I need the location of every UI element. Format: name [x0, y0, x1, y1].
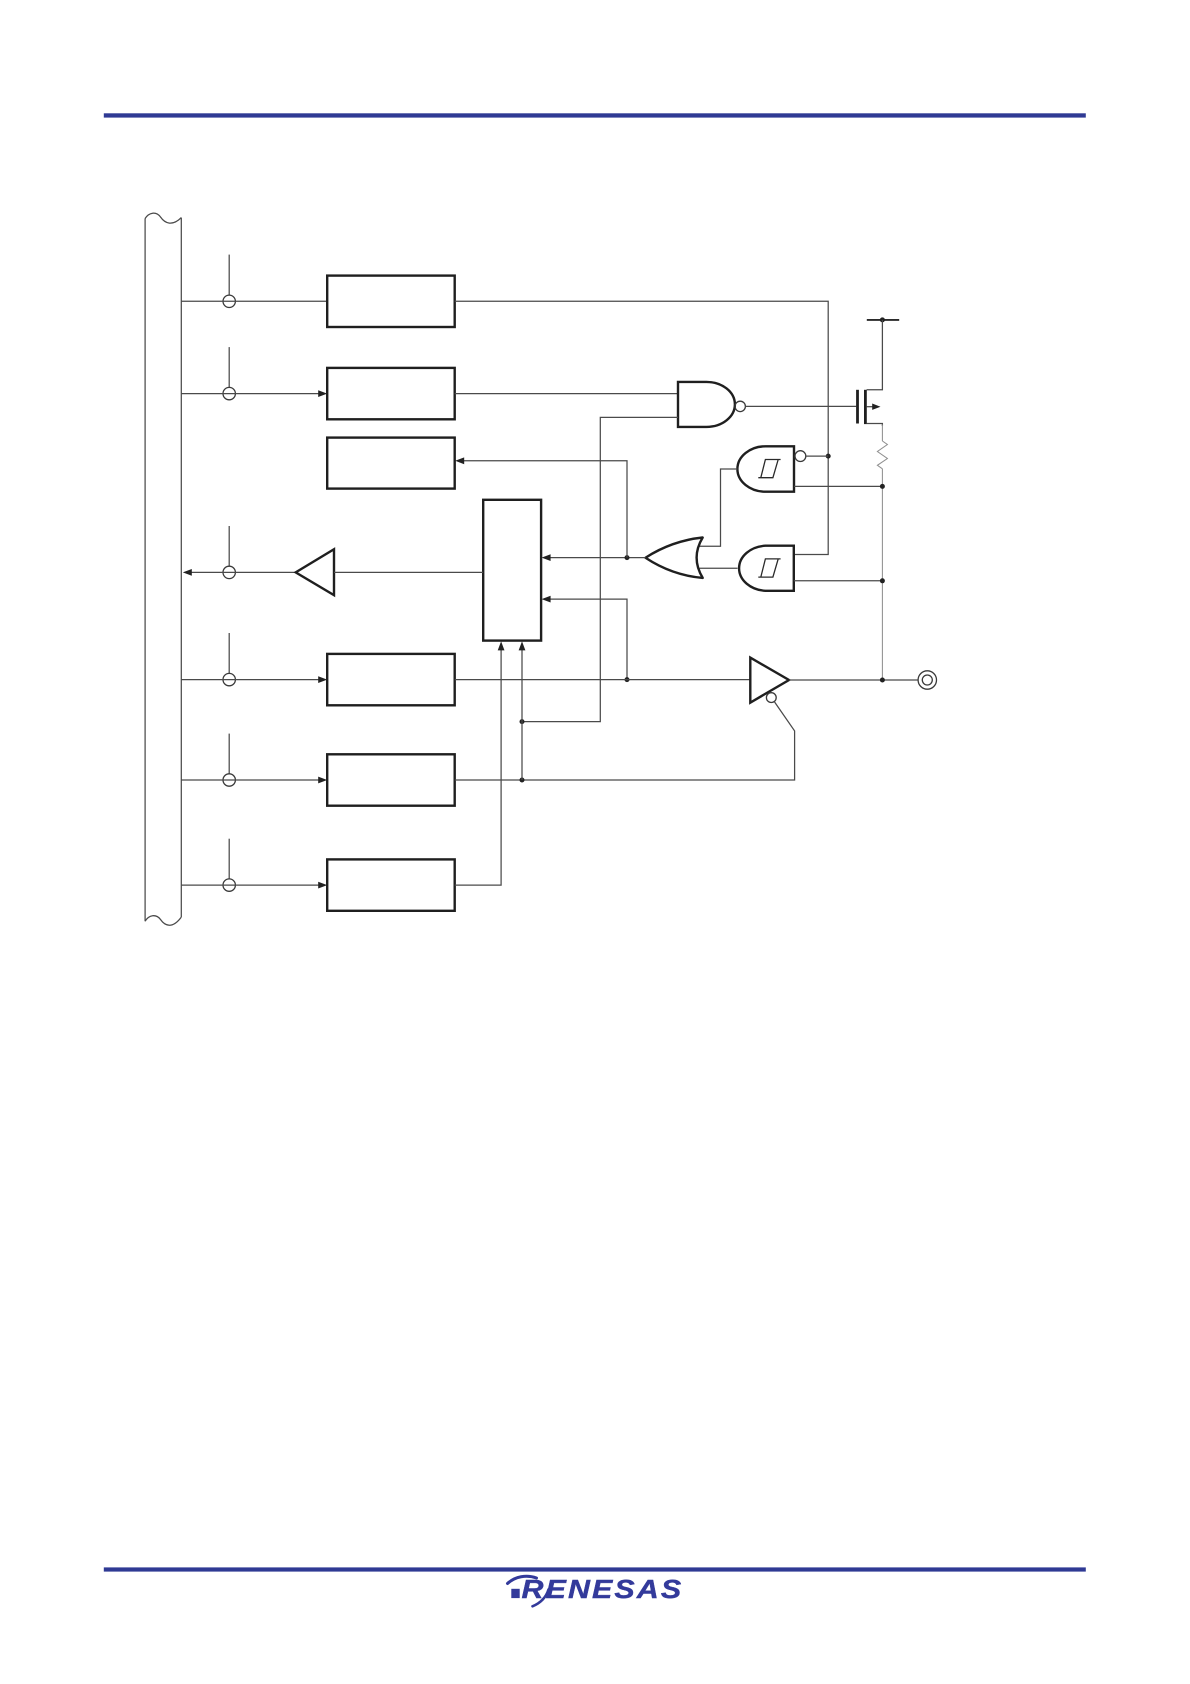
wire register5 output to buffer enable: [455, 702, 795, 780]
wire nand output to mosfet gate: [745, 405, 856, 407]
wire upper schmitt data input from pad net: [794, 485, 882, 487]
junction dot pad net lower: [880, 578, 885, 583]
output buffer enable bubble: [766, 693, 776, 703]
bus tap read row tick: [228, 526, 230, 566]
mosfet drain stub: [867, 424, 883, 427]
arrowhead into register row5: [318, 777, 327, 784]
wire or output to select block: [550, 557, 646, 559]
pad outer circle: [918, 671, 936, 689]
wire select block to read buffer: [334, 571, 483, 573]
wire row4 bus to register: [181, 679, 319, 681]
mosfet body arrow stub: [867, 406, 873, 408]
bus tap row5 tick: [228, 734, 230, 774]
mosfet channel bar: [864, 390, 867, 424]
bus tap row5 circle: [223, 774, 235, 786]
junction dot column A enable: [826, 454, 831, 459]
arrowhead into select block bottom right: [519, 641, 526, 650]
arrowhead into register row6: [318, 882, 327, 889]
schmitt gate lower hysteresis symbol: [758, 559, 780, 577]
junction dot or output branch: [625, 555, 630, 560]
read buffer triangle: [296, 549, 334, 595]
bus tap row4 tick: [228, 633, 230, 673]
arrowhead into select block bottom left: [498, 641, 505, 650]
arrowhead into select block lower: [542, 596, 551, 603]
nand gate body: [678, 382, 735, 427]
bus bottom squiggle: [145, 916, 181, 926]
wire power bar to mosfet source: [867, 320, 883, 390]
wire row1 bus to register: [181, 300, 327, 302]
arrowhead into register3: [455, 457, 464, 464]
junction dot column B to row5 riser: [520, 719, 525, 724]
arrowhead into register row2: [318, 390, 327, 397]
arrowhead into register row4: [318, 676, 327, 683]
mosfet gate bar: [856, 390, 859, 424]
riser register5 to select block: [521, 649, 523, 780]
bus tap row2 circle: [223, 387, 235, 399]
register box row5: [327, 754, 455, 805]
wire nand lower input from column B: [524, 417, 678, 721]
junction dot pad net upper: [880, 484, 885, 489]
junction dot on power bar: [880, 317, 885, 322]
junction dot row5 riser: [520, 778, 525, 783]
wire buffer output to pad: [789, 679, 918, 681]
renesas logo tail: [533, 1590, 549, 1607]
footer rule: [104, 1567, 1086, 1571]
register box row6: [327, 859, 455, 910]
wire lower schmitt output to or gate: [700, 567, 738, 569]
internal bus left line: [144, 219, 146, 922]
schmitt gate upper hysteresis symbol: [758, 460, 780, 478]
bus tap row1 circle: [223, 295, 235, 307]
wire upper schmitt enable to column A: [806, 455, 828, 457]
wire lower schmitt data input from pad net: [794, 580, 883, 582]
pull-up power bar: [867, 319, 899, 321]
svg-text:RENESAS: RENESAS: [522, 1574, 684, 1603]
pad inner circle: [922, 675, 932, 685]
pull-up resistor lead upper: [881, 425, 883, 442]
schmitt gate upper enable bubble: [795, 451, 806, 462]
or gate body: [646, 538, 703, 578]
bus tap row6 tick: [228, 839, 230, 879]
bus tap row6 circle: [223, 879, 235, 891]
function select block (tall rect): [483, 500, 541, 641]
bus tap row1 tick: [228, 255, 230, 296]
wire row5 bus to register: [181, 779, 319, 781]
wire branch to register3: [464, 461, 627, 558]
wire row6 bus to register: [181, 884, 319, 886]
mosfet body arrowhead: [872, 404, 880, 410]
wire select block input from row4 net: [550, 599, 627, 680]
pull-up resistor zigzag: [877, 441, 887, 469]
wire read buffer to bus: [192, 571, 296, 573]
register box row2: [327, 368, 455, 419]
output buffer triangle: [750, 658, 789, 703]
pull-up resistor lead lower to pad line: [881, 469, 883, 680]
bus tap read row circle: [223, 566, 235, 578]
arrowhead into select block upper: [542, 554, 551, 561]
wire upper schmitt output to or gate: [698, 469, 737, 546]
register box row1: [327, 276, 455, 327]
internal bus right line: [180, 218, 182, 918]
register box row4: [327, 654, 455, 705]
header rule: [104, 113, 1086, 117]
wire register6 output riser to select block: [455, 649, 501, 885]
renesas logo swash: [508, 1576, 537, 1583]
wire row2 bus to register: [181, 393, 319, 395]
wire register4 output to output buffer: [455, 679, 751, 681]
wire register2 output to nand: [455, 393, 678, 395]
junction dot pad line: [880, 678, 885, 683]
renesas logo square: [511, 1589, 519, 1598]
schmitt gate upper body: [737, 446, 794, 491]
bus tap row2 tick: [228, 347, 230, 387]
bus top squiggle: [145, 213, 181, 223]
nand output bubble: [735, 401, 745, 411]
register box row3: [327, 438, 455, 489]
arrowhead into bus read: [183, 569, 192, 576]
junction dot row4 net branch: [625, 677, 630, 682]
bus tap row4 circle: [223, 673, 235, 685]
wire register1 output to column A: [455, 301, 829, 554]
schmitt gate lower body: [739, 546, 794, 591]
